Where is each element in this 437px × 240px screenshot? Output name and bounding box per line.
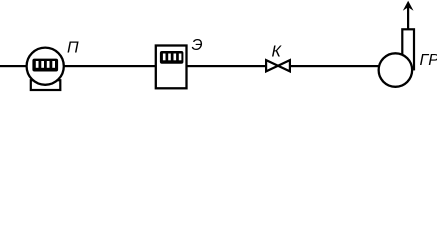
svg-text:П: П xyxy=(67,40,79,57)
valve K (bowtie) xyxy=(266,60,290,71)
arrow shaft xyxy=(407,3,409,29)
svg-text:Э: Э xyxy=(192,37,203,54)
wire xyxy=(290,65,380,67)
stove circle (element P) xyxy=(27,48,64,85)
wire xyxy=(0,65,28,67)
stove base (element P) xyxy=(31,80,61,90)
wire xyxy=(63,65,158,67)
svg-text:ГР: ГР xyxy=(420,52,437,69)
arrowhead xyxy=(403,1,414,11)
wire xyxy=(186,65,267,67)
meter box (element E) xyxy=(156,46,187,89)
stove register (black rect with 4 white slots) xyxy=(32,59,58,72)
svg-text:К: К xyxy=(272,44,283,61)
riser pipe (element GR) xyxy=(402,29,414,69)
meter register (black rect with 4 white slots) xyxy=(160,51,184,64)
gas burner circle (element GR) xyxy=(379,53,413,87)
